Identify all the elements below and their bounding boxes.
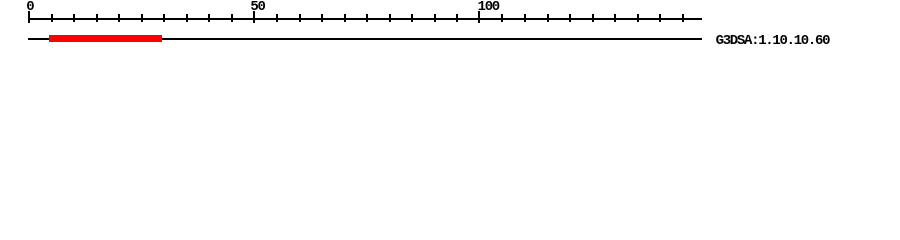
domain label G3DSA:1.10.10.60 xyxy=(716,37,830,46)
tick label 100 xyxy=(478,3,499,12)
tick label 50 xyxy=(250,3,264,12)
domain box (red) xyxy=(49,35,162,42)
sequence line xyxy=(28,38,702,40)
major tick 100 xyxy=(478,11,480,23)
minor ticks xyxy=(51,14,53,22)
ruler line xyxy=(28,18,702,20)
tick label 0 xyxy=(26,3,33,12)
major tick 0 xyxy=(28,11,30,23)
major tick 50 xyxy=(253,11,255,23)
